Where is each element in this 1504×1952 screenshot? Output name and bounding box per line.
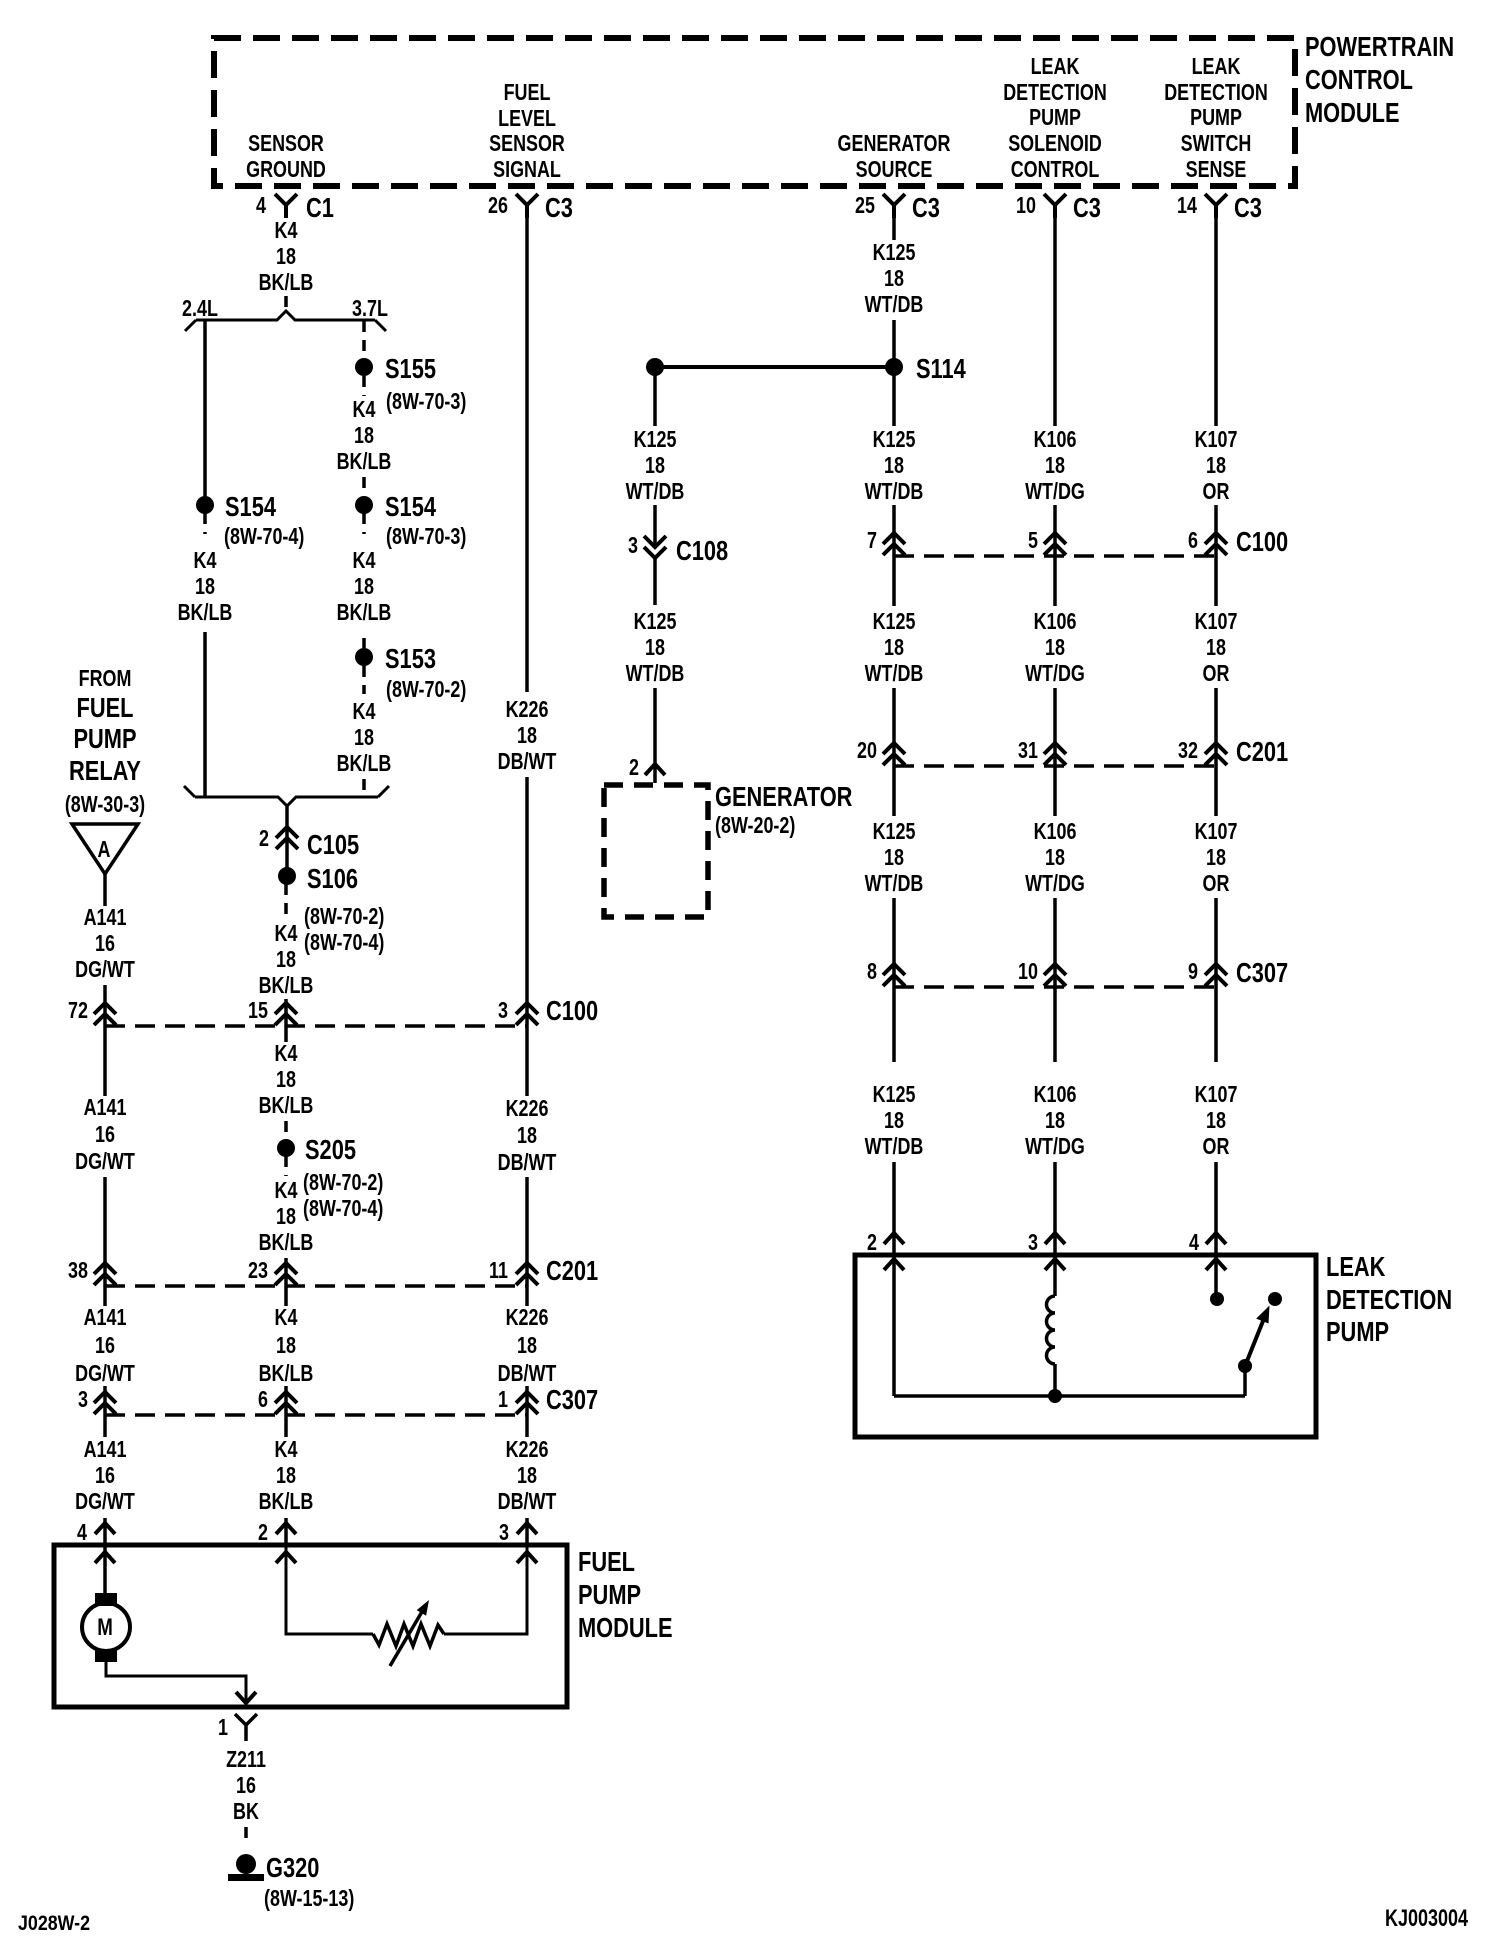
svg-text:WT/DB: WT/DB	[626, 479, 685, 505]
svg-text:SENSOR: SENSOR	[248, 131, 324, 157]
wire K4 dashed 3.7L seg5	[362, 638, 366, 648]
splice S106	[278, 867, 296, 885]
svg-text:2.4L: 2.4L	[182, 296, 218, 322]
svg-text:5: 5	[1028, 528, 1038, 554]
splice S205	[277, 1139, 295, 1157]
connector C307 chevron at K106	[1044, 964, 1066, 986]
svg-text:BK/LB: BK/LB	[337, 751, 392, 777]
svg-text:32: 32	[1178, 738, 1198, 764]
svg-text:SENSE: SENSE	[1186, 157, 1247, 183]
svg-text:C3: C3	[1073, 192, 1101, 223]
svg-text:C307: C307	[1236, 957, 1288, 988]
svg-text:DG/WT: DG/WT	[75, 1149, 135, 1175]
wire K4 dashed below S154 (2.4L)	[203, 513, 207, 534]
wire A141 above C307	[103, 1386, 107, 1415]
svg-text:DB/WT: DB/WT	[498, 749, 557, 775]
wire K226 above C201	[525, 1177, 529, 1286]
ldp pin 4 chevron (outside)	[1206, 1233, 1226, 1244]
svg-text:WT/DG: WT/DG	[1025, 479, 1085, 505]
svg-text:S154: S154	[385, 491, 436, 522]
svg-text:DG/WT: DG/WT	[75, 1361, 135, 1387]
svg-text:15: 15	[248, 998, 268, 1024]
wire K4 dashed stub above split	[284, 296, 288, 313]
svg-text:WT/DB: WT/DB	[865, 661, 924, 687]
svg-text:LEAK: LEAK	[1326, 1251, 1385, 1282]
connector C201 chevron at A141	[94, 1263, 116, 1285]
svg-text:G320: G320	[266, 1852, 319, 1883]
ldp pin 3 chevron (inside)	[1045, 1259, 1065, 1270]
svg-text:C3: C3	[545, 192, 573, 223]
svg-text:SOURCE: SOURCE	[856, 157, 933, 183]
svg-text:K107: K107	[1195, 609, 1238, 635]
svg-text:16: 16	[95, 931, 115, 957]
fpm pin 2 chevron (inside)	[276, 1552, 296, 1563]
svg-text:3: 3	[628, 533, 638, 559]
wire K106 below C307 right	[1053, 987, 1057, 1062]
svg-text:S153: S153	[385, 643, 436, 674]
svg-text:C105: C105	[307, 829, 359, 860]
svg-text:1: 1	[498, 1387, 508, 1413]
svg-text:10: 10	[1018, 959, 1038, 985]
svg-text:18: 18	[517, 1333, 537, 1359]
wire K4 dashed 3.7L seg7	[362, 779, 366, 797]
svg-text:J028W-2: J028W-2	[18, 1912, 90, 1936]
connector C3 pin 26	[516, 194, 538, 218]
svg-text:WT/DG: WT/DG	[1025, 871, 1085, 897]
connector C100 right row dashed line	[894, 554, 1216, 558]
wire K125 above C307 right	[892, 898, 896, 987]
svg-text:GENERATOR: GENERATOR	[715, 781, 852, 812]
svg-text:18: 18	[1045, 845, 1065, 871]
connector C100 chevron at A141	[94, 1003, 116, 1025]
splice S114 horizontal wire	[655, 365, 894, 369]
fpm pin 1 arrow at box edge	[236, 1692, 256, 1703]
svg-text:16: 16	[95, 1122, 115, 1148]
svg-text:C201: C201	[1236, 736, 1288, 767]
svg-text:K125: K125	[873, 240, 916, 266]
svg-text:BK/LB: BK/LB	[259, 1361, 314, 1387]
wire fpm pin4 to motor	[103, 1545, 107, 1593]
wire K125 above generator	[653, 688, 657, 783]
wire K4 through C105	[285, 806, 289, 876]
wire K4 dashed above S205	[284, 1121, 288, 1139]
svg-text:(8W-70-4): (8W-70-4)	[304, 930, 384, 956]
svg-text:10: 10	[1016, 193, 1036, 219]
svg-text:PUMP: PUMP	[73, 723, 136, 754]
connector C3 pin 10	[1044, 194, 1066, 218]
svg-text:DETECTION: DETECTION	[1326, 1284, 1452, 1315]
svg-text:18: 18	[276, 1463, 296, 1489]
wire K4 below C201	[284, 1286, 288, 1306]
connector C1 pin 4	[275, 194, 297, 218]
svg-text:(8W-30-3): (8W-30-3)	[65, 792, 145, 818]
wire K125 above leak detection pump	[892, 1162, 896, 1255]
svg-text:18: 18	[645, 453, 665, 479]
svg-text:18: 18	[517, 1123, 537, 1149]
wire A141 above fuel pump module	[103, 1518, 107, 1545]
wire K125 below C3 pin25	[892, 218, 896, 240]
svg-text:K106: K106	[1034, 1082, 1077, 1108]
svg-text:3: 3	[78, 1387, 88, 1413]
svg-text:18: 18	[1206, 845, 1226, 871]
svg-text:6: 6	[1188, 528, 1198, 554]
svg-text:Z211: Z211	[226, 1747, 266, 1773]
svg-text:18: 18	[884, 845, 904, 871]
wire K4 dashed 3.7L seg6	[362, 666, 366, 694]
svg-text:KJ003004: KJ003004	[1385, 1906, 1468, 1932]
svg-text:DB/WT: DB/WT	[498, 1489, 557, 1515]
ldp switch blade with arrow	[1245, 1321, 1263, 1366]
svg-text:K125: K125	[873, 1082, 916, 1108]
svg-text:GENERATOR: GENERATOR	[838, 131, 951, 157]
variable resistor (fuel level sensor)	[373, 1624, 444, 1646]
svg-text:18: 18	[276, 244, 296, 270]
svg-text:11: 11	[489, 1258, 508, 1284]
ldp solenoid wire upper	[1053, 1255, 1057, 1296]
fpm pin 4 chevron (outside)	[95, 1523, 115, 1534]
wire K125 above S114	[892, 320, 896, 367]
svg-text:18: 18	[1045, 453, 1065, 479]
wire Z211 dashed stub	[244, 1827, 248, 1846]
svg-text:PUMP: PUMP	[1190, 105, 1242, 131]
svg-text:6: 6	[258, 1387, 268, 1413]
ldp bus junction dot	[1048, 1389, 1062, 1403]
svg-text:(8W-70-3): (8W-70-3)	[386, 389, 466, 415]
svg-text:DB/WT: DB/WT	[498, 1150, 557, 1176]
svg-text:18: 18	[276, 947, 296, 973]
wire K226 above C100	[525, 777, 529, 1026]
svg-text:POWERTRAIN: POWERTRAIN	[1305, 31, 1454, 62]
connector C100 chevron at K106	[1044, 533, 1066, 555]
svg-text:K106: K106	[1034, 819, 1077, 845]
svg-text:K4: K4	[194, 548, 217, 574]
svg-text:18: 18	[354, 725, 374, 751]
powertrain control module box (dashed)	[214, 38, 1295, 186]
wire K106 above C100 right	[1053, 505, 1057, 556]
ldp switch wire pivot to bus	[1243, 1366, 1247, 1396]
wire K125 above C201 right	[892, 688, 896, 766]
svg-text:OR: OR	[1203, 871, 1230, 897]
ldp solenoid wire lower	[1053, 1364, 1057, 1396]
fuel pump motor brush (top)	[95, 1593, 117, 1606]
splice S154 (2.4L)	[196, 496, 214, 514]
svg-text:A: A	[98, 837, 111, 863]
wire A141 below C307	[103, 1415, 107, 1437]
svg-text:S106: S106	[307, 863, 358, 894]
wire K4 dashed below S205	[284, 1156, 288, 1176]
svg-text:3: 3	[1028, 1230, 1038, 1256]
svg-text:31: 31	[1018, 738, 1038, 764]
svg-text:LEAK: LEAK	[1031, 54, 1080, 80]
svg-text:18: 18	[354, 423, 374, 449]
svg-text:1: 1	[218, 1715, 228, 1741]
svg-text:7: 7	[867, 528, 877, 554]
svg-text:DG/WT: DG/WT	[75, 957, 135, 983]
svg-text:(8W-70-2): (8W-70-2)	[303, 1170, 383, 1196]
splice S153	[355, 648, 373, 666]
svg-text:WT/DB: WT/DB	[865, 1134, 924, 1160]
wire K4 above C307	[284, 1386, 288, 1415]
wire K106 above C201 right	[1053, 688, 1057, 766]
fuel pump motor M1	[82, 1603, 130, 1651]
svg-text:OR: OR	[1203, 1134, 1230, 1160]
svg-text:16: 16	[236, 1773, 256, 1799]
ldp solenoid coil L1	[1047, 1296, 1056, 1364]
svg-text:BK/LB: BK/LB	[178, 600, 233, 626]
svg-text:K106: K106	[1034, 609, 1077, 635]
svg-text:K4: K4	[275, 218, 298, 244]
ldp switch open contact dot	[1268, 1292, 1282, 1306]
wire A141 above C100	[103, 985, 107, 1026]
svg-text:K125: K125	[873, 609, 916, 635]
svg-text:K107: K107	[1195, 819, 1238, 845]
wire motor to ground elbow	[106, 1662, 246, 1700]
svg-text:18: 18	[884, 635, 904, 661]
wire K125 above C100 right	[892, 505, 896, 556]
connector C307 chevron at K107	[1205, 964, 1227, 986]
svg-text:BK/LB: BK/LB	[259, 1093, 314, 1119]
svg-text:BK/LB: BK/LB	[259, 973, 314, 999]
connector C201 right row dashed line	[894, 764, 1216, 768]
connector C201 chevron at K4	[275, 1263, 297, 1285]
svg-text:WT/DG: WT/DG	[1025, 1134, 1085, 1160]
svg-text:K4: K4	[353, 699, 376, 725]
ldp switch wire from pin 4	[1214, 1255, 1218, 1293]
wire K125 below C108	[653, 558, 657, 605]
svg-text:DB/WT: DB/WT	[498, 1361, 557, 1387]
svg-text:PUMP: PUMP	[578, 1579, 641, 1610]
wire K125 above C108	[653, 505, 657, 547]
wire K125 below C100 right	[892, 556, 896, 606]
wire K4 below C307	[284, 1415, 288, 1437]
wire K226 above fuel pump module	[525, 1518, 529, 1545]
svg-text:SENSOR: SENSOR	[489, 131, 565, 157]
svg-text:LEAK: LEAK	[1192, 54, 1241, 80]
svg-text:BK/LB: BK/LB	[337, 600, 392, 626]
svg-text:18: 18	[276, 1204, 296, 1230]
svg-text:SOLENOID: SOLENOID	[1008, 131, 1102, 157]
svg-text:K4: K4	[353, 397, 376, 423]
svg-text:A141: A141	[84, 1437, 127, 1463]
svg-text:C100: C100	[546, 995, 598, 1026]
svg-text:BK/LB: BK/LB	[259, 270, 314, 296]
svg-text:K226: K226	[506, 697, 549, 723]
wire K226 below C3 pin26	[525, 218, 529, 692]
svg-text:2: 2	[867, 1230, 877, 1256]
svg-text:DETECTION: DETECTION	[1003, 80, 1107, 106]
wire K106 above leak detection pump	[1053, 1162, 1057, 1255]
svg-text:K226: K226	[506, 1437, 549, 1463]
svg-text:WT/DB: WT/DB	[865, 479, 924, 505]
connector C307 right row dashed line	[894, 985, 1216, 989]
svg-text:14: 14	[1177, 193, 1197, 219]
svg-text:WT/DG: WT/DG	[1025, 661, 1085, 687]
svg-text:18: 18	[354, 574, 374, 600]
generator box (dashed)	[604, 785, 708, 917]
splice S155	[355, 358, 373, 376]
svg-text:2: 2	[629, 755, 639, 781]
svg-text:K125: K125	[634, 609, 677, 635]
connector C307 chevron at K125	[883, 964, 905, 986]
svg-text:BK: BK	[233, 1799, 259, 1825]
svg-text:25: 25	[855, 193, 875, 219]
svg-text:18: 18	[276, 1333, 296, 1359]
svg-text:18: 18	[276, 1067, 296, 1093]
svg-text:PUMP: PUMP	[1029, 105, 1081, 131]
wire K4 below C100	[284, 1026, 288, 1042]
svg-text:OR: OR	[1203, 661, 1230, 687]
wire K4 2.4L branch upper	[203, 321, 207, 497]
connector C3 pin 25	[883, 194, 905, 218]
svg-text:72: 72	[68, 998, 88, 1024]
svg-text:26: 26	[488, 193, 508, 219]
fuel pump module box	[54, 1545, 567, 1707]
svg-text:FUEL: FUEL	[77, 692, 134, 723]
svg-text:3: 3	[498, 998, 508, 1024]
svg-text:16: 16	[95, 1463, 115, 1489]
ldp pin 2 chevron (inside)	[884, 1259, 904, 1270]
connector C100 chevron at K107	[1205, 533, 1227, 555]
wire K226 below C100	[525, 1026, 529, 1096]
wire K4 above fuel pump module	[284, 1518, 288, 1545]
ground G320 symbol	[236, 1854, 256, 1874]
svg-text:SWITCH: SWITCH	[1181, 131, 1252, 157]
svg-text:PUMP: PUMP	[1326, 1316, 1389, 1347]
wire K125 branch below S114 dot	[653, 367, 657, 426]
wire K4 above C201	[284, 1258, 288, 1286]
svg-text:(8W-70-2): (8W-70-2)	[304, 904, 384, 930]
svg-text:K107: K107	[1195, 1082, 1238, 1108]
svg-text:4: 4	[256, 193, 266, 219]
svg-text:K4: K4	[275, 1178, 298, 1204]
wire K106 above C307 right	[1053, 898, 1057, 987]
connector C307 chevron at K226	[516, 1392, 538, 1414]
svg-text:S154: S154	[225, 491, 276, 522]
connector C307 row dashed line	[105, 1413, 527, 1417]
svg-text:3: 3	[499, 1520, 509, 1546]
svg-text:C307: C307	[546, 1384, 598, 1415]
svg-text:4: 4	[1189, 1230, 1199, 1256]
wire K106 below C3 pin10	[1053, 218, 1057, 426]
svg-text:DG/WT: DG/WT	[75, 1489, 135, 1515]
connector C3 pin 14	[1205, 194, 1227, 218]
svg-text:38: 38	[68, 1258, 88, 1284]
svg-text:(8W-70-2): (8W-70-2)	[386, 677, 466, 703]
svg-text:MODULE: MODULE	[1305, 97, 1400, 128]
svg-text:3.7L: 3.7L	[352, 296, 388, 322]
svg-text:18: 18	[884, 266, 904, 292]
svg-text:CONTROL: CONTROL	[1305, 64, 1413, 95]
connector C100 chevron at K4	[275, 1003, 297, 1025]
engine split brace 2.4L/3.7L	[185, 311, 386, 331]
svg-text:9: 9	[1188, 959, 1198, 985]
svg-text:4: 4	[77, 1520, 87, 1546]
svg-text:K4: K4	[353, 548, 376, 574]
splice S114 junction dot (left)	[646, 358, 664, 376]
svg-text:BK/LB: BK/LB	[337, 449, 392, 475]
svg-text:M: M	[97, 1614, 113, 1641]
wire K4 dashed above C100	[284, 999, 288, 1012]
svg-text:FUEL: FUEL	[504, 80, 551, 106]
svg-text:OR: OR	[1203, 479, 1230, 505]
variable resistor arrow	[390, 1610, 423, 1666]
svg-text:(8W-15-13): (8W-15-13)	[264, 1886, 354, 1912]
connector C201 chevron at K226	[516, 1263, 538, 1285]
wire level sensor left riser	[286, 1545, 373, 1634]
connector C108 (double chevron down)	[644, 536, 666, 558]
ldp wire pin2 to bus	[892, 1255, 896, 1396]
svg-text:S205: S205	[305, 1134, 356, 1165]
wire level sensor right riser	[444, 1545, 527, 1634]
fpm pin 3 chevron (outside)	[517, 1523, 537, 1534]
wire K125 below S114	[892, 367, 896, 426]
generator pin 2 chevron	[645, 764, 665, 775]
svg-text:C3: C3	[912, 192, 940, 223]
ldp pin 2 chevron (outside)	[884, 1233, 904, 1244]
connector C201 row dashed line	[105, 1284, 527, 1288]
svg-text:S155: S155	[385, 353, 436, 384]
wire A141 below C201	[103, 1286, 107, 1306]
connector C100 row dashed line	[105, 1024, 527, 1028]
fpm pin 2 chevron (outside)	[276, 1523, 296, 1534]
svg-text:18: 18	[517, 723, 537, 749]
svg-text:K125: K125	[873, 819, 916, 845]
wire K4 2.4L branch lower	[203, 632, 207, 797]
svg-text:K4: K4	[275, 1437, 298, 1463]
ldp switch pivot dot	[1238, 1359, 1252, 1373]
svg-text:K4: K4	[275, 921, 298, 947]
svg-text:MODULE: MODULE	[578, 1612, 673, 1643]
wire K107 above C100 right	[1214, 505, 1218, 556]
svg-text:FROM: FROM	[79, 666, 132, 692]
svg-text:K106: K106	[1034, 427, 1077, 453]
wire A141 above C201	[103, 1177, 107, 1286]
wire K107 below C201 right	[1214, 766, 1218, 816]
wire K4 dashed 3.7L seg1	[362, 321, 366, 358]
svg-text:K226: K226	[506, 1096, 549, 1122]
svg-text:A141: A141	[84, 905, 127, 931]
svg-text:(8W-70-4): (8W-70-4)	[303, 1196, 383, 1222]
svg-text:(8W-20-2): (8W-20-2)	[715, 813, 795, 839]
wire K125 below C201 right	[892, 766, 896, 816]
svg-text:WT/DB: WT/DB	[626, 661, 685, 687]
off-page arrow A (from fuel pump relay)	[72, 824, 138, 874]
svg-text:C100: C100	[1236, 526, 1288, 557]
svg-text:K125: K125	[634, 427, 677, 453]
svg-text:GROUND: GROUND	[246, 157, 326, 183]
svg-text:RELAY: RELAY	[69, 755, 141, 786]
svg-text:18: 18	[645, 635, 665, 661]
svg-text:18: 18	[884, 1108, 904, 1134]
svg-text:23: 23	[248, 1258, 268, 1284]
svg-text:(8W-70-4): (8W-70-4)	[224, 524, 304, 550]
svg-text:C108: C108	[676, 535, 728, 566]
wire K4 dashed 3.7L seg3	[362, 477, 366, 496]
svg-text:A141: A141	[84, 1095, 127, 1121]
connector C100 chevron at K226	[516, 1003, 538, 1025]
ldp switch fixed contact dot	[1210, 1292, 1224, 1306]
svg-text:16: 16	[95, 1333, 115, 1359]
ldp bottom bus wire	[894, 1394, 1245, 1398]
svg-text:2: 2	[259, 826, 269, 852]
svg-text:BK/LB: BK/LB	[259, 1230, 314, 1256]
svg-text:FUEL: FUEL	[578, 1546, 635, 1577]
wire K107 below C307 right	[1214, 987, 1218, 1062]
connector pin 1 Y below fpm	[235, 1714, 257, 1741]
svg-text:18: 18	[884, 453, 904, 479]
svg-text:8: 8	[867, 959, 877, 985]
connector C105 (double chevron)	[276, 827, 298, 849]
